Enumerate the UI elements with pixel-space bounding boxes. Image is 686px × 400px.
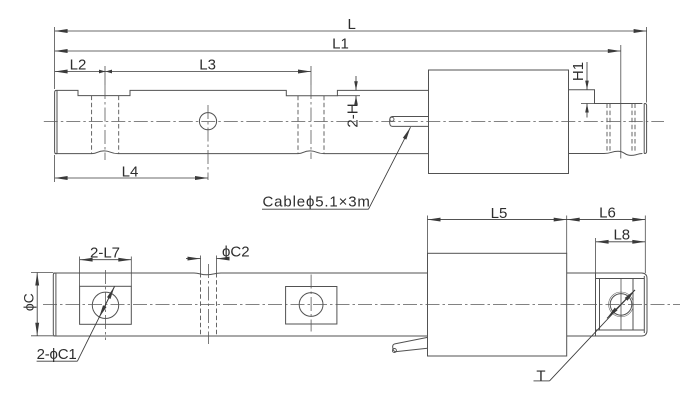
svg-text:ϕC: ϕC [21,293,37,311]
svg-text:Cableϕ5.1×3m: Cableϕ5.1×3m [263,194,371,211]
svg-text:2-H: 2-H [344,103,361,127]
svg-text:L4: L4 [122,164,139,181]
svg-text:L3: L3 [199,57,216,74]
svg-text:2-L7: 2-L7 [90,245,120,262]
svg-text:H1: H1 [570,62,587,81]
svg-text:ϕC2: ϕC2 [222,244,250,261]
svg-text:2-ϕC1: 2-ϕC1 [37,346,77,363]
svg-text:L1: L1 [332,36,349,53]
svg-text:L8: L8 [613,227,630,244]
svg-text:L5: L5 [491,205,508,222]
svg-text:L6: L6 [599,205,616,222]
svg-text:L: L [348,16,356,33]
svg-text:L2: L2 [70,57,87,74]
svg-text:T: T [536,367,545,384]
